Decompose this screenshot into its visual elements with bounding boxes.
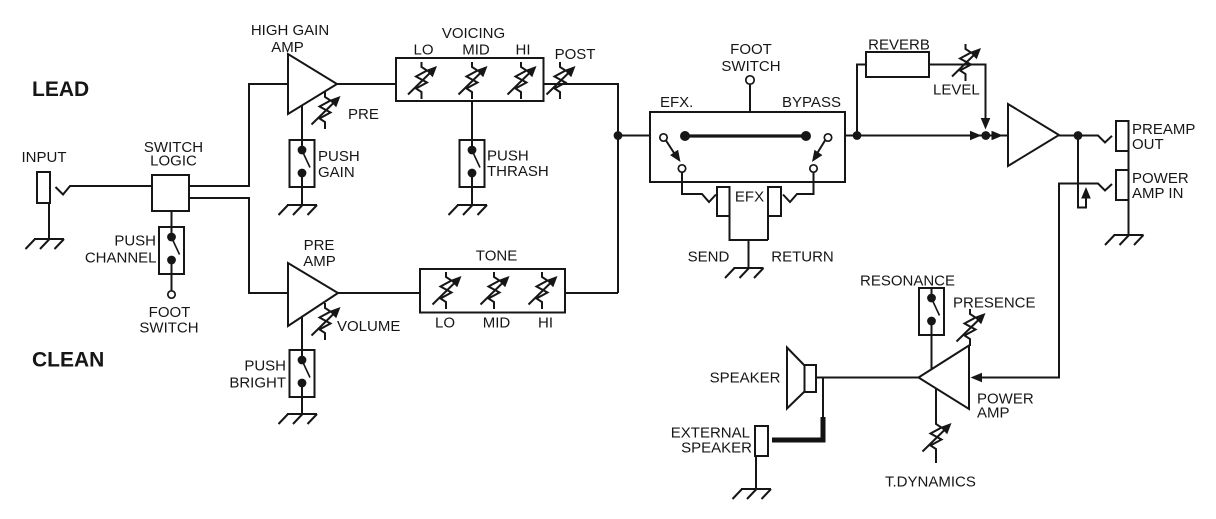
svg-text:SWITCH: SWITCH (721, 58, 780, 75)
svg-text:PUSH: PUSH (244, 358, 286, 375)
svg-text:SPEAKER: SPEAKER (681, 440, 752, 457)
wire push channel to foot switch terminal (171, 274, 173, 291)
jack J2 send (717, 187, 730, 216)
wire high gain amp to push gain switch (301, 106, 303, 140)
potentiometer PRESENCE (957, 309, 986, 346)
node efx switch left throw (678, 165, 685, 172)
node preamp out dot (1074, 131, 1083, 140)
ground push thrash (449, 205, 488, 215)
svg-text:REVERB: REVERB (868, 37, 930, 54)
arrow into power amp (971, 373, 983, 383)
op-amp A4 power amp (919, 346, 970, 410)
wire resonance to power amp (931, 335, 933, 370)
potentiometer VOLUME (312, 303, 341, 340)
node bypass left dot (680, 131, 690, 141)
wire push thrash to ground (471, 187, 473, 205)
wire reverb output through level pot (929, 65, 986, 124)
svg-text:FOOT: FOOT (149, 304, 191, 321)
ground push gain (279, 205, 318, 215)
svg-text:TONE: TONE (476, 248, 517, 265)
svg-text:VOLUME: VOLUME (337, 318, 400, 335)
wire return hook (783, 172, 814, 202)
svg-text:LEVEL: LEVEL (933, 82, 980, 99)
wire efx foot switch stem (749, 84, 751, 112)
wire return sleeve (767, 216, 769, 240)
svg-text:AMP IN: AMP IN (1132, 185, 1183, 202)
wire voicing to thrash switch (471, 101, 473, 140)
potentiometer PRE (312, 92, 341, 129)
switch arm right with arrow (816, 141, 826, 157)
svg-text:POST: POST (555, 46, 596, 63)
svg-text:HI: HI (516, 42, 531, 59)
node efx switch right throw (810, 165, 817, 172)
block voicing box (396, 58, 544, 101)
potentiometer tone HI (529, 272, 558, 309)
potentiometer voicing MID (459, 62, 488, 99)
wire switch logic to push channel switch (171, 211, 173, 227)
wire thick external speaker link (772, 417, 823, 440)
svg-text:RETURN: RETURN (771, 249, 834, 266)
wire high gain amp output to voicing (337, 83, 396, 85)
wire jack sleeves to ground (1128, 151, 1130, 235)
wire send hook (682, 172, 716, 202)
node reverb mix dot (981, 131, 990, 140)
svg-text:RESONANCE: RESONANCE (860, 273, 955, 290)
ground external speaker (733, 489, 772, 499)
wire external speaker to ground (755, 456, 757, 489)
svg-text:OUT: OUT (1132, 136, 1164, 153)
wire reverb input from bus (857, 65, 866, 136)
wire driver output to preamp out (1059, 136, 1112, 143)
block reverb (866, 52, 929, 77)
svg-text:PUSH: PUSH (318, 148, 360, 165)
switch S4 push bright (290, 350, 315, 397)
wire pre amp output to tone (338, 292, 420, 294)
svg-text:LO: LO (413, 42, 433, 59)
svg-text:PRE: PRE (304, 237, 335, 254)
ground efx jacks (725, 268, 764, 278)
jack J1 INPUT (37, 172, 50, 203)
wire main bus efx to driver (845, 135, 1008, 137)
wire t.dynamics lead (935, 455, 937, 463)
svg-text:HI: HI (538, 315, 553, 332)
wire push gain to ground (301, 187, 303, 205)
node foot switch open terminal (168, 291, 175, 298)
svg-text:CLEAN: CLEAN (32, 349, 104, 372)
ground input jack (26, 239, 65, 249)
svg-text:MID: MID (462, 42, 490, 59)
svg-text:HIGH GAIN: HIGH GAIN (251, 22, 329, 39)
switch S3 push thrash (460, 140, 485, 187)
svg-text:MID: MID (483, 315, 511, 332)
wire input tip contact to switch logic (56, 186, 153, 195)
node efx switch left pole (660, 134, 667, 141)
arrow bus direction 1 (970, 131, 982, 141)
wire power amp in feed (975, 184, 1112, 378)
wire switch logic to high gain amp input (189, 84, 288, 186)
svg-text:EFX.: EFX. (660, 94, 693, 111)
wire switch logic to clean pre amp input (189, 198, 288, 293)
svg-text:LOGIC: LOGIC (150, 153, 197, 170)
svg-text:PRESENCE: PRESENCE (953, 295, 1036, 312)
wire pre amp to push bright switch (301, 317, 303, 350)
svg-text:AMP: AMP (977, 405, 1010, 422)
ground output jacks (1105, 235, 1144, 245)
svg-text:INPUT: INPUT (22, 149, 67, 166)
arrow bus direction 2 (992, 131, 1004, 141)
block U1 switch logic (152, 175, 189, 211)
wire efx jacks to ground (748, 240, 750, 268)
potentiometer tone LO (433, 272, 462, 309)
svg-text:CHANNEL: CHANNEL (85, 250, 157, 267)
svg-text:FOOT: FOOT (730, 41, 772, 58)
arrow reverb return down (981, 118, 991, 130)
op-amp A2 clean pre amp (288, 263, 338, 326)
jack J4 preamp out (1116, 121, 1129, 151)
svg-text:VOICING: VOICING (442, 25, 505, 42)
svg-text:PRE: PRE (348, 106, 379, 123)
op-amp A3 output driver (1008, 104, 1059, 166)
node reverb tap dot (853, 131, 862, 140)
svg-text:BRIGHT: BRIGHT (229, 375, 286, 392)
svg-text:PUSH: PUSH (114, 233, 156, 250)
wire voicing through post pot to node A (544, 84, 619, 293)
svg-text:LO: LO (435, 315, 455, 332)
op-amp A1 high gain amp (288, 54, 337, 114)
arrow normalled link up (1081, 187, 1091, 199)
switch S1 push channel (159, 227, 184, 274)
node bypass right dot (801, 131, 811, 141)
wire node A to efx loop (618, 135, 650, 137)
wire push bright to ground (301, 397, 303, 414)
wire speaker tap down (822, 378, 824, 418)
switch S2 push gain (290, 140, 315, 187)
svg-text:T.DYNAMICS: T.DYNAMICS (885, 474, 976, 491)
potentiometer POST (547, 62, 576, 99)
node efx switch right pole (824, 134, 831, 141)
svg-text:SEND: SEND (688, 249, 730, 266)
wire input jack sleeve (48, 203, 50, 239)
potentiometer voicing HI (508, 62, 537, 99)
block tone box (420, 269, 565, 313)
potentiometer voicing LO (408, 62, 437, 99)
wire bypass bar (685, 134, 806, 137)
svg-text:SPEAKER: SPEAKER (710, 370, 781, 387)
svg-text:PUSH: PUSH (487, 148, 529, 165)
wire power amp to t.dynamics pot (935, 389, 937, 420)
jack J3 return (768, 187, 781, 216)
wire normalled link down (1078, 136, 1086, 208)
potentiometer LEVEL (952, 44, 981, 81)
svg-text:GAIN: GAIN (318, 164, 355, 181)
speaker LS1 (805, 365, 817, 392)
switch S5 resonance (919, 288, 944, 335)
wire send sleeve (730, 216, 769, 240)
node A junction dot (614, 131, 623, 140)
jack J6 external speaker (755, 426, 768, 456)
svg-text:AMP: AMP (303, 253, 336, 270)
svg-text:THRASH: THRASH (487, 163, 549, 180)
potentiometer T.DYNAMICS (923, 419, 952, 456)
svg-text:SWITCH: SWITCH (139, 320, 198, 337)
jack J5 power amp in (1116, 170, 1129, 200)
switch arm left with arrow (666, 141, 676, 157)
potentiometer tone MID (481, 272, 510, 309)
svg-text:LEAD: LEAD (32, 78, 89, 101)
wire power amp to speaker (816, 377, 919, 379)
node efx foot switch terminal (746, 76, 754, 84)
svg-text:EFX: EFX (735, 189, 764, 206)
wire tone output to node A (565, 292, 618, 294)
block efx loop box (650, 112, 845, 182)
ground push bright (279, 414, 318, 424)
svg-text:BYPASS: BYPASS (782, 94, 841, 111)
